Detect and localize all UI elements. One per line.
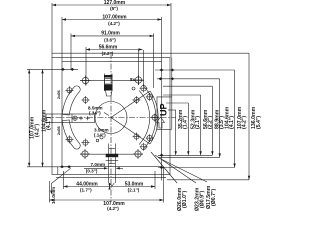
arc slot hole -28deg [146, 134, 154, 142]
svg-text:(5″): (5″) [110, 6, 118, 11]
tiny circle below [132, 87, 135, 90]
hole row construction line bottom [80, 153, 143, 155]
kidney hole upper [66, 86, 74, 94]
svg-text:(3.6″): (3.6″) [104, 37, 116, 42]
right ref connector y86.2 [163, 85, 212, 87]
UP box [157, 97, 172, 130]
bottom dim 107.0 [49, 199, 163, 211]
svg-text:(4.2″): (4.2″) [241, 116, 247, 129]
right vdim 107.0 [233, 70, 247, 168]
extension line right 107 [161, 17, 163, 62]
right bottom connector y155.3 [158, 154, 212, 156]
svg-text:91.0mm: 91.0mm [101, 31, 120, 37]
arc slot hole 0deg [151, 114, 159, 122]
left vertical dim 104.6mm [41, 69, 52, 166]
bottom right leader 1 [151, 152, 177, 183]
arc slot hole +42deg [140, 84, 148, 92]
arc slot hole +28deg [146, 93, 154, 101]
bottom screw [106, 144, 119, 187]
extension line left 107 [61, 17, 63, 62]
diamonds on top ref [61, 68, 74, 71]
extension line right 91 [153, 33, 155, 88]
svg-text:(0.3″): (0.3″) [86, 169, 98, 174]
plate bottom second edge [56, 176, 166, 178]
svg-text:(2.1″): (2.1″) [195, 116, 201, 129]
bottom right rotated text 3 [206, 185, 217, 209]
bottom-left leader [51, 168, 70, 193]
right bottom connector y164.9 [158, 167, 235, 169]
svg-text:(5.4″): (5.4″) [256, 116, 262, 129]
vertical centerline [110, 53, 112, 201]
dimension 107.00mm top [62, 14, 162, 25]
svg-text:44.00mm: 44.00mm [76, 181, 98, 187]
plate inner square [62, 62, 162, 167]
svg-text:(.34″): (.34″) [89, 111, 101, 116]
wedge arc [150, 91, 158, 144]
extension line left 56 [85, 47, 87, 86]
svg-text:(4.2″): (4.2″) [107, 206, 119, 211]
boss crosses [73, 116, 90, 120]
svg-text:8x: 8x [130, 77, 136, 82]
left kidney slot upper [62, 86, 80, 115]
right bottom connector y157.4 [158, 156, 220, 158]
UP arrow outline [157, 117, 165, 128]
svg-text:53.0mm: 53.0mm [125, 181, 144, 187]
mid hole upper-left [82, 96, 90, 104]
hole row construction line top [80, 79, 144, 81]
svg-text:(Ø0.9″): (Ø0.9″) [199, 191, 205, 208]
extension line right 56 outer [143, 50, 145, 86]
right bottom connector y179.8 [167, 179, 249, 181]
mid hole lower-left [82, 139, 90, 147]
right vdim ext line [171, 58, 173, 130]
right ref connector y78.8 [157, 78, 220, 80]
arc slot hole -42deg [140, 143, 148, 151]
chamfer vertical bottom-left [57, 167, 59, 175]
bottom dim 44.00 / 53.0 line [64, 181, 156, 192]
dimension 56.6mm top [86, 44, 143, 56]
right vdim 52.3 [187, 103, 201, 155]
svg-text:(Ø1.0″): (Ø1.0″) [182, 191, 188, 208]
right ref connector y70 [155, 69, 235, 71]
right ref connector y95 [163, 94, 201, 96]
bottom right leader 3 [159, 158, 207, 182]
corner hole bottom-right [133, 149, 143, 159]
svg-text:2xØ6: 2xØ6 [57, 126, 61, 135]
right arc slot band [139, 86, 156, 150]
long datum line top [52, 52, 249, 54]
kidney hole lower [66, 135, 74, 143]
dimension 127.0mm top [52, 0, 171, 11]
svg-text:(4.1″): (4.1″) [229, 116, 235, 129]
svg-text:7.0mm: 7.0mm [91, 162, 106, 167]
extension line left 127 [51, 3, 53, 58]
extension line left 91 [70, 33, 72, 69]
svg-text:UP: UP [159, 103, 169, 116]
right vdim 104.6 [219, 79, 236, 158]
bottom dim ext lines [63, 171, 65, 189]
inner right edge extension [160, 167, 162, 181]
dimension 91.0mm top [71, 31, 154, 43]
svg-text:(Ø0.7″): (Ø0.7″) [211, 189, 217, 206]
top screw [104, 74, 113, 97]
svg-text:2xØ6: 2xØ6 [57, 90, 61, 99]
svg-text:(4.1″): (4.1″) [46, 117, 52, 130]
svg-text:(2.1″): (2.1″) [128, 188, 140, 193]
svg-text:56.6mm: 56.6mm [99, 44, 118, 50]
left boss [46, 114, 95, 123]
tiny holes [96, 139, 99, 142]
wedge top edge [111, 91, 150, 118]
corner hole top-right [134, 75, 144, 85]
corner hole bottom-left [80, 149, 90, 159]
svg-text:16.0mm: 16.0mm [51, 187, 56, 204]
plate outer square [52, 58, 170, 175]
extension line right 127 [170, 3, 172, 58]
right vdim 35.2 [175, 109, 189, 155]
bottom right rotated text 2 [195, 187, 206, 211]
right ref connector y110 [168, 109, 176, 111]
right vdim 56.6 [199, 95, 213, 155]
diamonds on bottom ref [60, 165, 71, 168]
right vdim 136.0 [248, 53, 262, 180]
mid hole lower-right [133, 133, 141, 141]
svg-text:(4.2″): (4.2″) [34, 124, 40, 137]
bottom right leader 2 [155, 155, 196, 183]
extension line right 56 [137, 50, 139, 85]
left dims top reference line [27, 68, 78, 70]
wedge bottom edge [111, 118, 150, 145]
left kidney slot lower [62, 120, 80, 149]
horizontal centerline [45, 117, 176, 119]
svg-text:(4.2″): (4.2″) [108, 21, 120, 26]
svg-text:(1.7″): (1.7″) [80, 188, 92, 193]
left vertical dim 107.0mm [28, 69, 40, 166]
left dims bottom reference line [27, 166, 71, 168]
right ref connector y103 [166, 102, 188, 104]
mid hole upper-right [133, 96, 141, 104]
svg-text:107.00mm: 107.00mm [102, 14, 127, 20]
svg-text:(1.4″): (1.4″) [183, 116, 189, 129]
bottom right rotated text 1 [177, 187, 188, 211]
central circle [95, 102, 127, 134]
corner hole top-left [81, 76, 91, 86]
right vdim 88.9 [211, 86, 225, 155]
